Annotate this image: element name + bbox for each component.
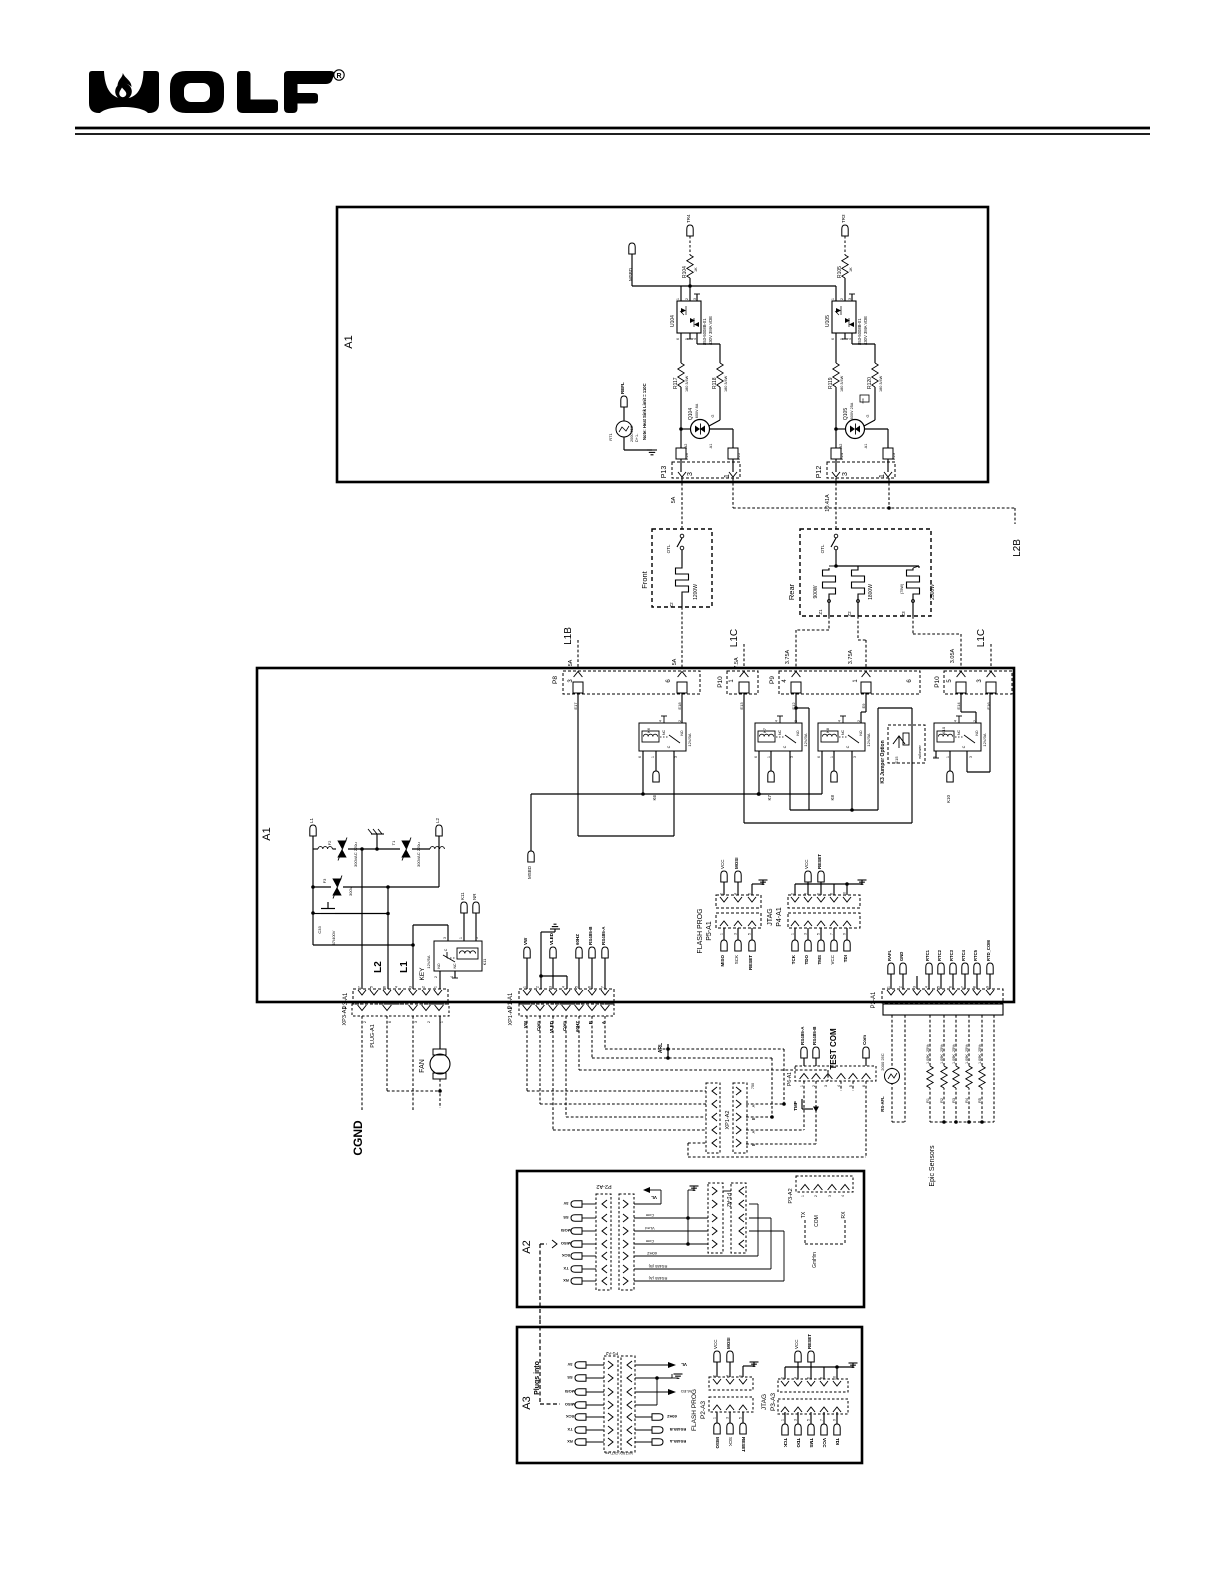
net CGND bbox=[361, 1016, 363, 1110]
wire bbox=[795, 693, 797, 723]
svg-text:1: 1 bbox=[720, 933, 724, 935]
terminal E24 bbox=[831, 448, 841, 459]
wire bbox=[530, 794, 532, 851]
svg-text:5: 5 bbox=[817, 933, 821, 935]
wire from A2 entering A3 bbox=[539, 1320, 541, 1404]
svg-text:2: 2 bbox=[812, 1085, 816, 1087]
svg-text:10: 10 bbox=[843, 892, 847, 896]
wire bbox=[689, 236, 691, 255]
wire Com row bbox=[539, 1016, 541, 1104]
wire L2 drop bbox=[387, 887, 389, 989]
svg-text:A: A bbox=[751, 1130, 756, 1133]
svg-text:1: 1 bbox=[434, 986, 438, 988]
terminal E16 bbox=[986, 682, 996, 693]
svg-text:Rear: Rear bbox=[787, 583, 796, 600]
terminal RESET bbox=[810, 1362, 812, 1379]
svg-text:RTC1: RTC1 bbox=[925, 949, 930, 961]
svg-text:RX: RX bbox=[841, 1211, 847, 1219]
svg-text:5: 5 bbox=[370, 986, 374, 988]
svg-text:K11: K11 bbox=[482, 958, 487, 966]
svg-text:1: 1 bbox=[781, 1419, 785, 1421]
svg-text:TR4: TR4 bbox=[686, 214, 691, 223]
terminal RS485-A bbox=[803, 1058, 805, 1066]
svg-text:JTAG: JTAG bbox=[761, 1394, 768, 1410]
svg-text:w/lower: w/lower bbox=[917, 745, 922, 759]
svg-text:VCC: VCC bbox=[830, 954, 835, 964]
logo letter O bbox=[170, 71, 224, 113]
svg-text:TMS: TMS bbox=[809, 1438, 814, 1448]
connector body bbox=[883, 1004, 1003, 1015]
wire bbox=[463, 913, 465, 941]
svg-text:XP1-A2: XP1-A2 bbox=[725, 1111, 731, 1130]
wire B row bbox=[591, 1016, 593, 1058]
wire bbox=[892, 1121, 905, 1123]
svg-text:E9: E9 bbox=[861, 703, 866, 709]
svg-text:R3: R3 bbox=[952, 1098, 956, 1103]
svg-text:A1: A1 bbox=[709, 444, 713, 449]
triac Q104 bbox=[691, 420, 710, 439]
svg-text:K6: K6 bbox=[646, 727, 651, 733]
connector P10 bbox=[727, 671, 758, 694]
wire bbox=[975, 712, 977, 723]
terminal E9 bbox=[861, 682, 871, 693]
svg-text:6: 6 bbox=[862, 1085, 866, 1087]
svg-text:1800W: 1800W bbox=[868, 584, 874, 600]
terminal RS485-B bbox=[815, 1058, 817, 1066]
wire bbox=[591, 958, 593, 989]
svg-text:GND: GND bbox=[899, 952, 904, 961]
svg-text:R4: R4 bbox=[965, 1098, 969, 1103]
svg-text:R: R bbox=[336, 73, 341, 80]
terminal VW bbox=[524, 947, 530, 958]
svg-text:12V/3A: 12V/3A bbox=[687, 733, 692, 746]
board outline A2 bbox=[517, 1171, 864, 1307]
svg-text:Z3: Z3 bbox=[901, 611, 906, 617]
terminal K10 bbox=[947, 771, 953, 782]
wire bbox=[833, 751, 835, 771]
svg-text:TX: TX bbox=[801, 1211, 807, 1218]
svg-text:1: 1 bbox=[887, 986, 891, 988]
svg-text:G: G bbox=[866, 414, 870, 417]
terminal VCC bbox=[797, 1362, 799, 1379]
svg-text:3: 3 bbox=[443, 937, 447, 939]
terminal RS485-A bbox=[602, 947, 608, 958]
ground bbox=[688, 1189, 694, 1191]
svg-text:4: 4 bbox=[838, 720, 842, 722]
wire bbox=[815, 1081, 817, 1144]
svg-text:5: 5 bbox=[807, 1419, 811, 1421]
svg-text:6: 6 bbox=[638, 756, 642, 758]
svg-text:K11: K11 bbox=[460, 892, 465, 900]
relay K10 bbox=[934, 723, 981, 751]
terminal VCC bbox=[723, 882, 725, 895]
wire bbox=[746, 1116, 772, 1118]
svg-text:L1C: L1C bbox=[729, 629, 740, 647]
svg-text:5A: 5A bbox=[672, 658, 678, 665]
svg-text:4: 4 bbox=[925, 986, 929, 988]
svg-text:JTAG: JTAG bbox=[767, 908, 774, 925]
svg-text:(75W): (75W) bbox=[900, 583, 904, 594]
svg-text:2: 2 bbox=[422, 986, 426, 988]
svg-text:R118: R118 bbox=[712, 377, 718, 389]
wire bbox=[821, 751, 823, 794]
wire Com rows to ground bbox=[634, 1217, 708, 1219]
svg-text:7: 7 bbox=[830, 933, 834, 935]
svg-text:TMS: TMS bbox=[817, 955, 822, 965]
terminal E14 bbox=[956, 682, 966, 693]
svg-text:12V/3A: 12V/3A bbox=[866, 733, 871, 746]
wire jtag vcc bus bbox=[794, 884, 796, 895]
resistor R4 bbox=[964, 1066, 974, 1088]
terminal TR3 bbox=[842, 225, 848, 236]
wire VCC bus bbox=[632, 285, 836, 287]
svg-text:2: 2 bbox=[536, 986, 540, 988]
svg-text:NO: NO bbox=[859, 730, 863, 736]
svg-text:5A: 5A bbox=[568, 659, 574, 666]
wire Com row 2 bbox=[565, 1016, 567, 1117]
svg-text:12V/5A: 12V/5A bbox=[426, 955, 431, 968]
svg-text:180 3/4W: 180 3/4W bbox=[685, 375, 689, 392]
net VLED bbox=[635, 1391, 668, 1393]
wire bbox=[746, 1103, 784, 1105]
label 600 bbox=[860, 395, 869, 402]
svg-text:A3: A3 bbox=[521, 1396, 533, 1409]
svg-text:K7: K7 bbox=[762, 727, 767, 733]
relay K6 bbox=[639, 723, 686, 751]
svg-text:6: 6 bbox=[748, 893, 752, 895]
terminal MSBD bbox=[629, 243, 635, 254]
connector P13 bbox=[672, 462, 740, 478]
triac Q105 bbox=[846, 420, 865, 439]
wire VLed row bbox=[634, 1230, 708, 1232]
wire loop bbox=[579, 835, 581, 837]
terminal TDI bbox=[836, 1412, 838, 1424]
svg-text:E18: E18 bbox=[677, 702, 682, 710]
svg-text:P5-A1: P5-A1 bbox=[706, 921, 713, 941]
svg-text:1: 1 bbox=[946, 756, 950, 758]
wire A row bbox=[604, 1016, 606, 1049]
wire bbox=[681, 550, 683, 566]
wire bbox=[836, 428, 846, 430]
svg-text:3: 3 bbox=[790, 756, 794, 758]
svg-text:1: 1 bbox=[830, 756, 834, 758]
wire bbox=[623, 437, 625, 450]
svg-text:3: 3 bbox=[842, 472, 849, 476]
wire bbox=[865, 1081, 867, 1157]
connector P9 bbox=[779, 671, 920, 694]
wire bbox=[835, 286, 837, 301]
svg-text:NC: NC bbox=[841, 730, 845, 736]
svg-text:3: 3 bbox=[734, 933, 738, 935]
svg-text:SCK: SCK bbox=[562, 1253, 571, 1258]
terminal E18 bbox=[677, 682, 687, 693]
svg-text:F2: F2 bbox=[327, 840, 332, 845]
heater element Z3 2500W bbox=[907, 568, 920, 596]
wire E13 riser / bus3 bbox=[743, 693, 745, 823]
svg-text:3.75A: 3.75A bbox=[785, 649, 791, 664]
terminal RESET bbox=[742, 1412, 744, 1423]
svg-text:VCC: VCC bbox=[822, 1438, 827, 1448]
relay K8 bbox=[818, 723, 865, 751]
svg-text:1: 1 bbox=[801, 1195, 805, 1197]
svg-text:RESET: RESET bbox=[807, 1334, 812, 1349]
connector P1-A2 (mating) bbox=[733, 1083, 747, 1153]
resistor R104 bbox=[687, 255, 693, 278]
svg-text:NO: NO bbox=[437, 963, 441, 969]
connector P8 bbox=[563, 671, 700, 694]
board outline A1 (main) bbox=[257, 668, 1014, 1002]
terminal TMS bbox=[810, 1412, 812, 1424]
terminal TMS bbox=[820, 928, 822, 940]
svg-text:K8: K8 bbox=[830, 795, 835, 801]
jumper option K3 bbox=[888, 725, 925, 763]
wire L1 bottom bbox=[313, 944, 413, 946]
registered trademark bbox=[334, 70, 344, 80]
svg-text:MISO: MISO bbox=[715, 1437, 720, 1449]
wire bbox=[935, 751, 937, 758]
wire bbox=[438, 836, 440, 887]
svg-text:R120: R120 bbox=[867, 377, 873, 389]
wire L1B to P8-3 bbox=[577, 640, 579, 668]
svg-text:300V: 300V bbox=[348, 886, 353, 896]
svg-text:RS485 (A): RS485 (A) bbox=[648, 1276, 667, 1281]
ground bbox=[671, 1374, 673, 1378]
svg-text:2: 2 bbox=[791, 893, 795, 895]
logo letter L bbox=[237, 71, 278, 113]
svg-text:D+1-: D+1- bbox=[635, 433, 639, 442]
svg-text:XP3-A1: XP3-A1 bbox=[342, 1007, 348, 1026]
resistor R120 bbox=[872, 363, 878, 387]
terminal VCC bbox=[716, 1362, 718, 1377]
svg-text:VLed: VLed bbox=[645, 1226, 654, 1231]
svg-text:1K: 1K bbox=[849, 267, 853, 272]
svg-text:3: 3 bbox=[794, 1419, 798, 1421]
resistor R2 bbox=[939, 1066, 949, 1088]
svg-text:NR: NR bbox=[472, 893, 477, 900]
svg-text:2000 25C: 2000 25C bbox=[630, 425, 634, 442]
svg-text:L1B: L1B bbox=[563, 627, 574, 645]
svg-text:3.05A: 3.05A bbox=[950, 648, 956, 663]
terminal MOSI bbox=[729, 1362, 731, 1377]
wire RS485A long row bbox=[634, 1280, 784, 1282]
wire bbox=[789, 751, 791, 810]
svg-text:Front: Front bbox=[640, 570, 649, 588]
Wolf logo bbox=[89, 71, 159, 113]
svg-text:P10: P10 bbox=[934, 676, 941, 688]
terminal TR4 bbox=[687, 225, 693, 236]
svg-text:PLUG-A1: PLUG-A1 bbox=[370, 1024, 376, 1048]
svg-text:2: 2 bbox=[685, 298, 689, 300]
svg-text:9: 9 bbox=[833, 1419, 837, 1421]
svg-text:Q105: Q105 bbox=[843, 408, 849, 420]
svg-text:COM: COM bbox=[814, 1215, 820, 1227]
svg-text:4: 4 bbox=[794, 1377, 798, 1379]
svg-text:1: 1 bbox=[459, 937, 463, 939]
svg-text:2: 2 bbox=[840, 298, 844, 300]
svg-text:3V: 3V bbox=[563, 1201, 568, 1206]
svg-text:Z1: Z1 bbox=[818, 609, 823, 615]
wire bbox=[949, 751, 951, 771]
svg-text:Com: Com bbox=[862, 1035, 867, 1045]
svg-text:5: 5 bbox=[748, 933, 752, 935]
logo flame bbox=[115, 83, 132, 100]
svg-text:SS: SS bbox=[567, 1375, 573, 1380]
wire bus2 bbox=[809, 809, 878, 811]
svg-text:3: 3 bbox=[824, 1085, 828, 1087]
svg-text:L1: L1 bbox=[309, 817, 314, 823]
double rule bbox=[75, 127, 1150, 130]
svg-text:600V 25A: 600V 25A bbox=[850, 402, 854, 419]
connector P12 bbox=[827, 462, 895, 478]
connector XP3-A1 bbox=[352, 1004, 449, 1016]
svg-text:MOSI: MOSI bbox=[565, 1389, 575, 1394]
svg-text:2: 2 bbox=[434, 976, 438, 978]
terminal E13 bbox=[739, 682, 749, 693]
svg-text:TX: TX bbox=[567, 1427, 572, 1432]
svg-text:180 3/4W: 180 3/4W bbox=[840, 375, 844, 392]
terminal RESET bbox=[820, 882, 822, 895]
ground bbox=[742, 1366, 744, 1377]
wire bbox=[835, 333, 837, 363]
svg-text:TDO: TDO bbox=[804, 955, 809, 965]
wire bbox=[439, 1079, 441, 1108]
inductor bbox=[318, 847, 332, 849]
terminal RESET bbox=[751, 928, 753, 940]
svg-text:1.09K .25%: 1.09K .25% bbox=[926, 1044, 930, 1064]
wire bbox=[680, 286, 682, 301]
svg-text:FLASH PROG: FLASH PROG bbox=[697, 908, 704, 953]
svg-text:FLASH PROG: FLASH PROG bbox=[691, 1389, 698, 1431]
svg-text:5: 5 bbox=[575, 986, 579, 988]
svg-text:180 3/4W: 180 3/4W bbox=[879, 375, 883, 392]
wire Com rows bbox=[635, 1377, 672, 1379]
wire sensor drops bbox=[891, 1015, 893, 1122]
wire bbox=[758, 751, 760, 794]
svg-text:P1-A2: P1-A2 bbox=[725, 1193, 731, 1207]
svg-text:C33: C33 bbox=[317, 926, 322, 934]
wire bbox=[655, 751, 657, 771]
svg-text:1: 1 bbox=[767, 756, 771, 758]
wire L1C to P10-1 bbox=[743, 644, 745, 668]
ground bbox=[647, 449, 657, 451]
connector XP1-A1 bbox=[519, 1004, 614, 1016]
svg-text:1: 1 bbox=[713, 1417, 717, 1419]
svg-text:600: 600 bbox=[861, 398, 865, 403]
wire P13-3 to Front bbox=[681, 478, 683, 529]
svg-text:U105: U105 bbox=[825, 315, 831, 327]
svg-text:9: 9 bbox=[843, 933, 847, 935]
svg-text:7: 7 bbox=[820, 1419, 824, 1421]
node junction bbox=[539, 974, 543, 978]
terminal 60HZ bbox=[576, 947, 582, 958]
svg-text:TEST COM: TEST COM bbox=[829, 1028, 838, 1070]
svg-text:6: 6 bbox=[949, 986, 953, 988]
svg-text:TR3: TR3 bbox=[841, 214, 846, 223]
svg-text:1.09K .25%: 1.09K .25% bbox=[978, 1044, 982, 1064]
svg-text:L1C: L1C bbox=[976, 629, 987, 647]
net VL bbox=[634, 1203, 661, 1205]
svg-text:RS485-A: RS485-A bbox=[670, 1439, 687, 1444]
svg-text:L2B: L2B bbox=[1012, 539, 1023, 557]
thermal limiter OTL (rear) bbox=[834, 534, 838, 538]
node junction bbox=[688, 284, 692, 288]
svg-text:3: 3 bbox=[726, 1417, 730, 1419]
heater box Front bbox=[652, 529, 712, 607]
wire bbox=[312, 836, 314, 945]
wire F3 row bbox=[313, 886, 331, 888]
terminal K6 bbox=[653, 771, 659, 782]
svg-text:NO: NO bbox=[975, 730, 979, 736]
svg-text:MISO: MISO bbox=[565, 1402, 575, 1407]
svg-text:180 3/4W: 180 3/4W bbox=[724, 375, 728, 392]
svg-text:VL: VL bbox=[681, 1362, 687, 1367]
svg-text:3: 3 bbox=[549, 986, 553, 988]
terminal SCK bbox=[737, 928, 739, 940]
svg-text:Q104: Q104 bbox=[688, 408, 694, 420]
wire bbox=[688, 1142, 706, 1144]
terminal TDO bbox=[807, 928, 809, 940]
svg-text:2: 2 bbox=[899, 986, 903, 988]
svg-text:6: 6 bbox=[739, 1375, 743, 1377]
svg-text:RS485-A: RS485-A bbox=[601, 926, 606, 945]
wire bbox=[835, 550, 837, 566]
wire bbox=[966, 751, 968, 772]
svg-text:2: 2 bbox=[713, 1375, 717, 1377]
svg-text:6: 6 bbox=[817, 893, 821, 895]
svg-text:R104: R104 bbox=[682, 266, 688, 278]
svg-text:U104: U104 bbox=[670, 315, 676, 327]
svg-text:2: 2 bbox=[678, 720, 682, 722]
svg-text:1: 1 bbox=[651, 756, 655, 758]
svg-text:7: 7 bbox=[358, 986, 362, 988]
svg-text:TX: TX bbox=[563, 1266, 568, 1271]
wire bbox=[680, 387, 682, 448]
svg-text:TMP: TMP bbox=[793, 1101, 798, 1111]
svg-text:Note: Heat Sink Limit = 110C: Note: Heat Sink Limit = 110C bbox=[642, 383, 647, 440]
wire Rear Z2 to P9-1 bbox=[857, 616, 859, 640]
svg-text:10.41A: 10.41A bbox=[825, 494, 831, 512]
terminal REFL bbox=[621, 396, 627, 407]
svg-text:5: 5 bbox=[937, 986, 941, 988]
wire bbox=[552, 958, 554, 989]
svg-text:300VAC 220u: 300VAC 220u bbox=[416, 842, 421, 867]
wire L1 row bbox=[313, 848, 318, 850]
wire bbox=[865, 693, 867, 712]
terminal L1 bbox=[310, 825, 316, 836]
svg-text:NXT.8Q(.CKT).ea: NXT.8Q(.CKT).ea bbox=[605, 1451, 632, 1455]
wire bbox=[835, 387, 837, 448]
svg-text:E13: E13 bbox=[739, 702, 744, 710]
svg-text:P2-A2: P2-A2 bbox=[596, 1183, 611, 1189]
svg-text:VLED: VLED bbox=[681, 1389, 692, 1394]
svg-text:A1: A1 bbox=[343, 335, 355, 348]
wire jtag bus bbox=[784, 1367, 786, 1379]
svg-text:5: 5 bbox=[849, 1085, 853, 1087]
resistor R117 bbox=[678, 363, 684, 387]
svg-text:L2: L2 bbox=[373, 961, 384, 973]
svg-text:P3-A3: P3-A3 bbox=[770, 1393, 777, 1411]
wire bbox=[623, 407, 625, 421]
capacitor C33 bbox=[321, 908, 335, 910]
svg-text:1.09K .25%: 1.09K .25% bbox=[940, 1044, 944, 1064]
terminal MOSI bbox=[737, 882, 739, 895]
svg-text:P2-A3: P2-A3 bbox=[700, 1401, 707, 1419]
terminal E17 bbox=[573, 682, 583, 693]
svg-text:TCK: TCK bbox=[783, 1438, 788, 1448]
wire bbox=[681, 693, 683, 723]
svg-text:Epic Sensors: Epic Sensors bbox=[929, 1145, 936, 1187]
svg-text:MISO: MISO bbox=[720, 955, 725, 967]
